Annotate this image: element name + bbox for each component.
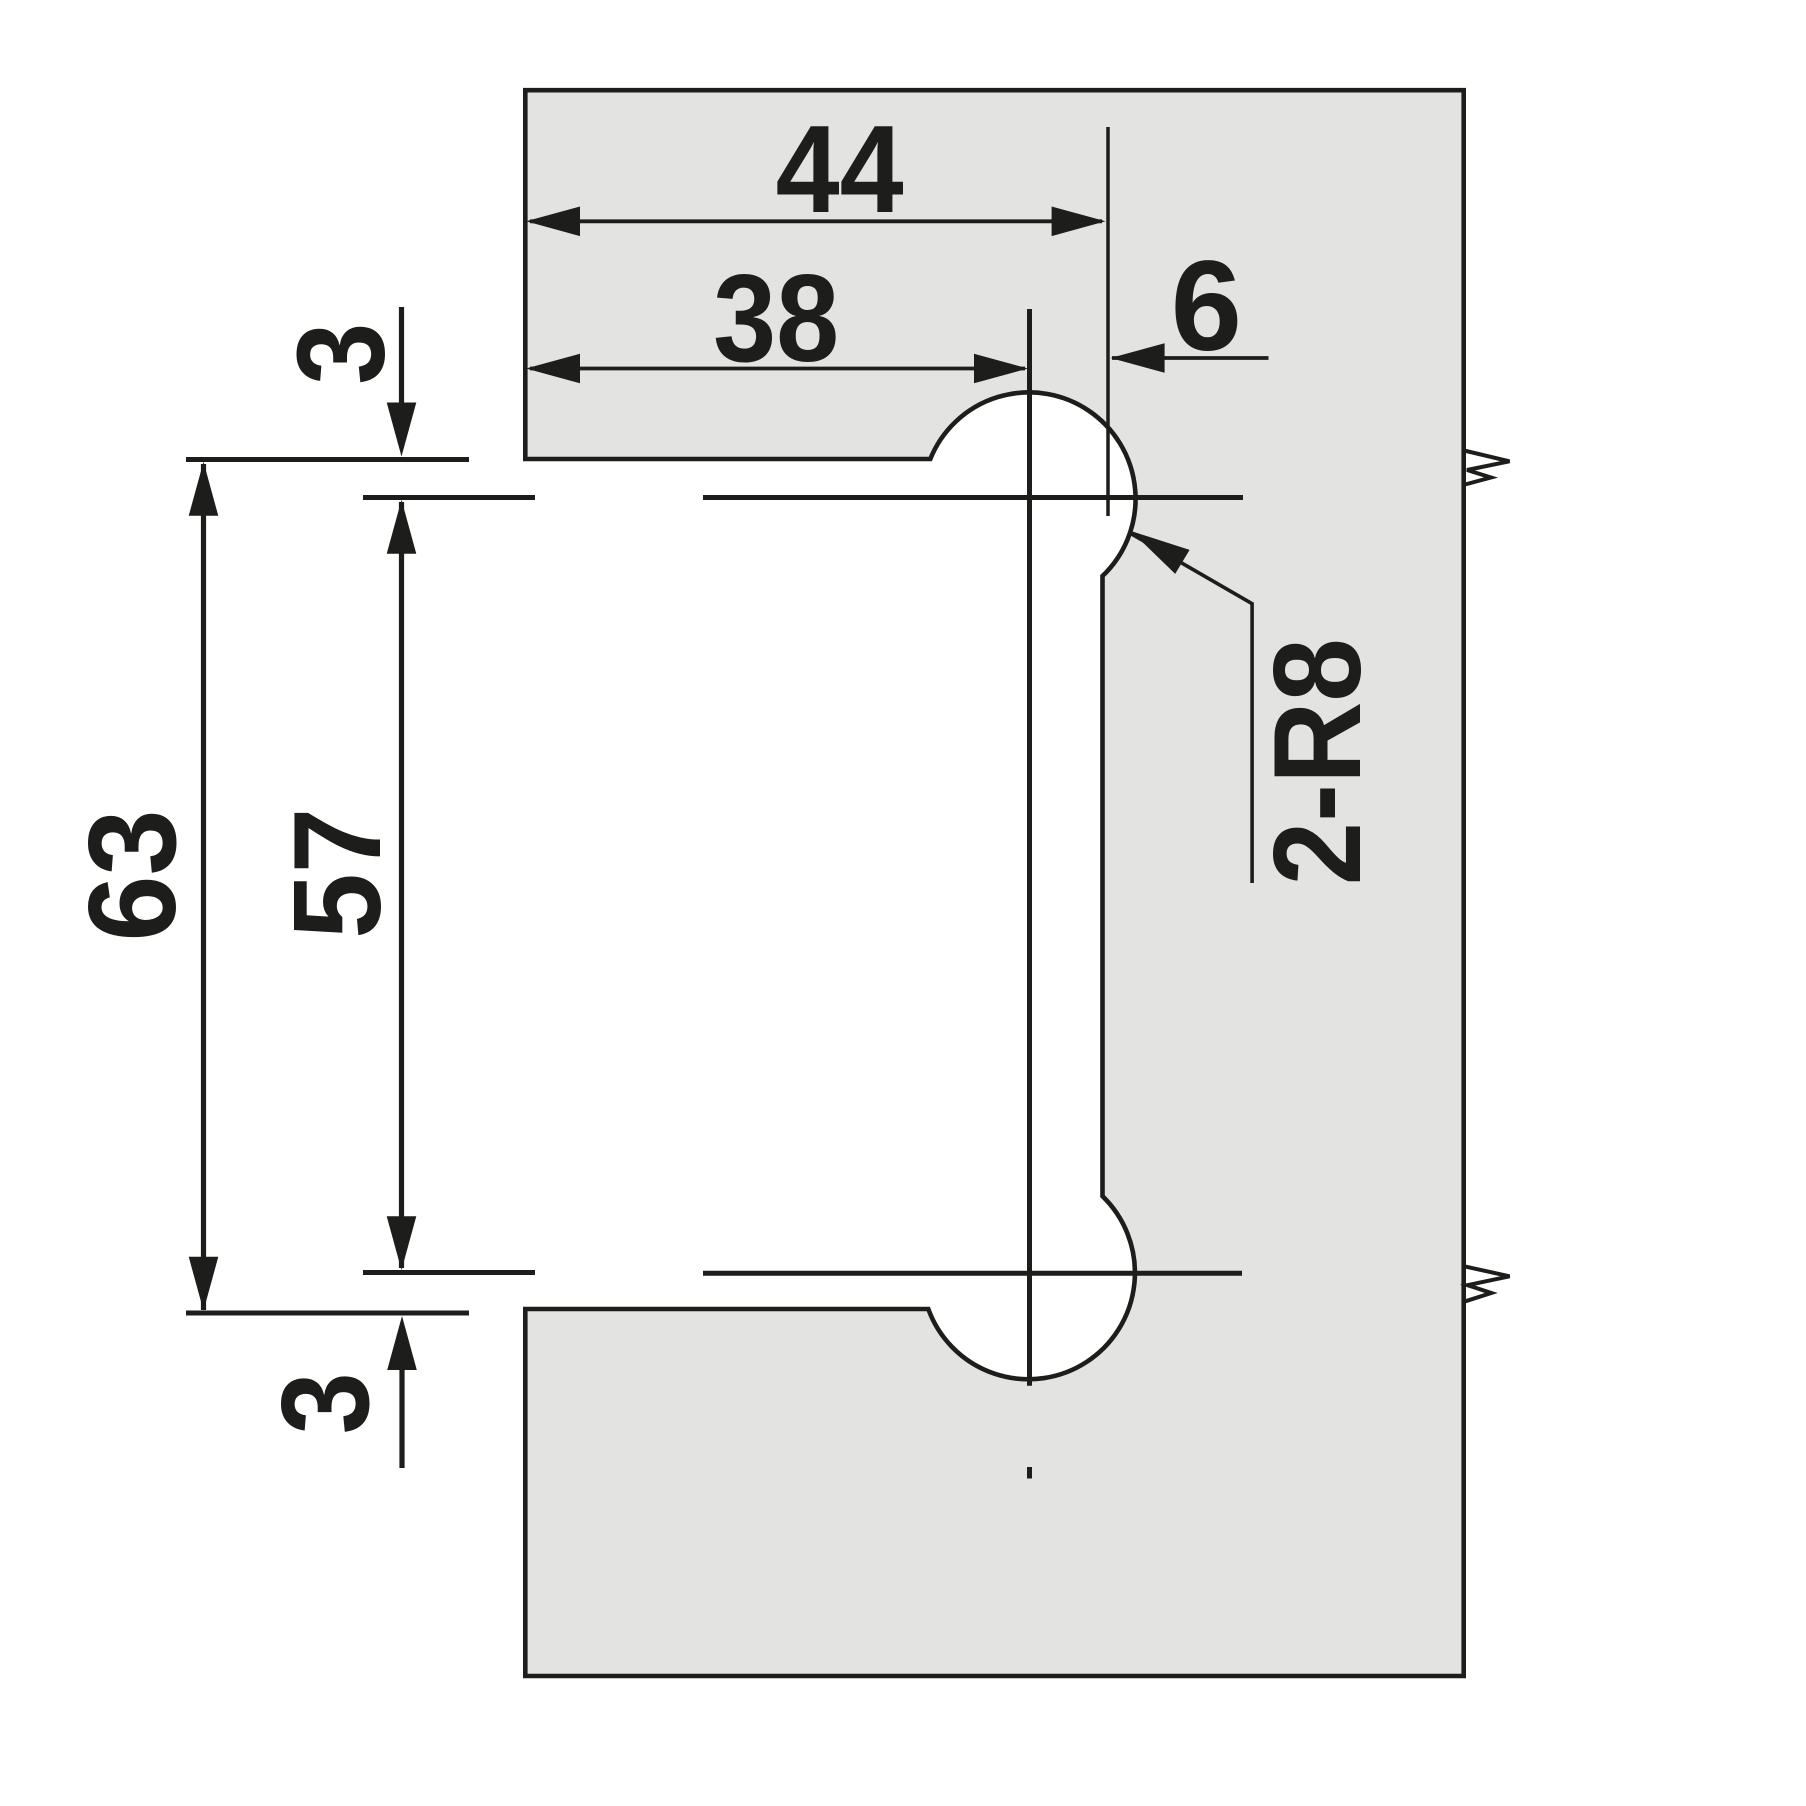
svg-text:6: 6 [1171,235,1242,378]
leader line for 2-R8 [1131,531,1252,883]
bottom hole horizontal centerline [703,1271,1242,1276]
extension line 57 top [363,495,535,500]
vertical centerline through cup holes [1027,309,1032,1386]
top hole horizontal centerline [703,495,1243,500]
dimension 6 line [1111,343,1269,373]
extension line for 44 and 6 [1106,127,1110,516]
extension line 57 bottom [363,1270,535,1275]
svg-text:57: 57 [269,808,407,939]
svg-text:2-R8: 2-R8 [1249,638,1387,885]
glass panel with hinge cutout [525,90,1463,1676]
svg-text:3: 3 [273,323,411,385]
extension line 63 top [186,457,469,462]
dimension 38 line [526,354,1028,384]
dimension 44 line [526,207,1106,237]
dimension 63 line [189,462,219,1311]
break mark zigzag top right [1464,451,1510,485]
dimension 3 top arrow and stem [387,307,417,457]
svg-text:63: 63 [64,810,202,942]
dimension 57 line [387,500,417,1271]
extension line 63 bottom [186,1311,469,1316]
centerline dash below bottom hole [1027,1467,1032,1479]
dimension 3 bottom arrow and stem [387,1316,417,1468]
svg-text:44: 44 [776,101,904,239]
svg-text:38: 38 [713,250,839,388]
break mark zigzag bottom right [1465,1266,1510,1301]
svg-text:3: 3 [257,1372,395,1434]
